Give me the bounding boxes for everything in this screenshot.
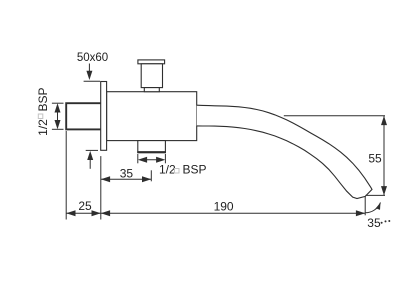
arrowhead 55 dim bottom: [381, 186, 387, 195]
bottom fitting thick lip: [137, 151, 166, 153]
svg-text:190: 190: [214, 200, 234, 214]
label 1/2" BSP (rotated): [36, 87, 50, 135]
label 1/2 BSP (bottom fitting): [159, 163, 207, 177]
top fitting cap: [138, 60, 165, 64]
extension line at flange top: [84, 80, 100, 82]
body: [107, 92, 197, 141]
arrowhead 25 dim left: [66, 210, 75, 216]
wall face extension line: [100, 156, 102, 219]
fitting dim extension lines: [137, 154, 139, 163]
arrowhead angle arc: [376, 203, 381, 210]
arrowhead 50x60 leader: [86, 71, 92, 80]
top fitting body: [141, 64, 162, 88]
arrowhead 190 dim right: [356, 210, 365, 216]
arrowhead fitting dim left: [138, 157, 147, 163]
arrowhead 25 dim right: [92, 210, 101, 216]
angle arc: [365, 203, 380, 213]
arrowhead 35 dim left: [101, 176, 110, 182]
55 dim line: [383, 116, 385, 196]
svg-text:1/2: 1/2: [36, 119, 50, 136]
top fitting neck: [144, 88, 159, 92]
svg-text:BSP: BSP: [183, 163, 207, 177]
55 dim bottom reference line: [366, 194, 385, 196]
svg-text:35: 35: [120, 166, 134, 180]
flange bottom extension line: [86, 149, 98, 151]
arrowhead pipe dim bottom: [55, 120, 61, 129]
flange bottom leader line: [89, 158, 91, 169]
arrowhead 55 dim top: [381, 116, 387, 125]
arrowhead pipe dim top: [55, 103, 61, 112]
degree dots: [381, 220, 391, 224]
pipe dim line: [57, 106, 59, 127]
pipe dim extension lines: [52, 102, 64, 104]
svg-text:50x60: 50x60: [77, 52, 108, 64]
spout tip extension line: [364, 196, 366, 215]
35 dim right extension line: [150, 170, 152, 181]
svg-text:25: 25: [78, 199, 92, 213]
svg-text:BSP: BSP: [36, 87, 50, 111]
arrowhead 35 dim right: [142, 176, 151, 182]
25 and 190 dim line: [66, 212, 365, 214]
fitting dim line: [140, 159, 163, 161]
left extension line: [65, 131, 67, 220]
leader line for 50x60: [88, 64, 90, 73]
svg-text:55: 55: [368, 152, 382, 166]
arrowhead fitting dim right: [156, 157, 165, 163]
svg-text:35: 35: [367, 216, 381, 230]
35 dim line: [101, 178, 152, 180]
55 dim top reference line: [284, 115, 385, 117]
wall flange plate: [101, 82, 107, 151]
svg-text:1/2: 1/2: [159, 163, 176, 177]
spout: [197, 105, 372, 198]
arrowhead 190 dim left: [101, 210, 110, 216]
bottom fitting: [138, 141, 166, 153]
arrowhead flange bottom leader: [87, 151, 93, 160]
inlet pipe: [66, 103, 102, 129]
